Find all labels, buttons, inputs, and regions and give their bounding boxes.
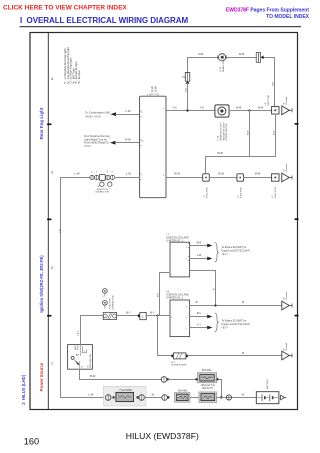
svg-text:IGNITION SW: IGNITION SW [90,353,92,368]
wire connector to right corner [264,57,275,59]
junction dot at 249.6,110.6 [248,109,250,111]
arrow to ECU 4 [207,326,212,330]
svg-text:<H-2>: <H-2> [84,145,91,148]
svg-text:R 16: R 16 [220,66,222,71]
svg-text:3 HILUX (LHD): 3 HILUX (LHD) [21,374,26,404]
svg-text:JUNCTION: JUNCTION [241,187,243,198]
I7 wire pin1 to arrow [190,245,208,247]
combination switch box C12 [140,96,166,198]
junction dot ignition feed [156,314,158,316]
svg-text:80A ALT-H: 80A ALT-H [202,387,213,390]
junction dot ground bus [214,304,216,306]
svg-text:TO MODEL INDEX: TO MODEL INDEX [266,14,310,20]
I8 wire pin3 to arrow [190,327,208,329]
wire through ign box [80,345,82,356]
svg-text:R-B: R-B [185,88,187,92]
wire junction down [249,111,251,157]
curly brace 1 [215,243,219,263]
svg-text:Power Source: Power Source [39,362,44,391]
svg-text:W: W [152,392,155,396]
sidebar divider line [47,33,49,410]
wire am2 to alt [190,397,199,399]
ign sw lever [71,356,74,359]
junction connector circles group [90,175,94,179]
junction connector J8 [272,107,279,114]
svg-text:L-B: L-B [197,253,201,257]
svg-text:Y-G: Y-G [200,105,205,109]
wire from bulb corner down [274,58,276,107]
svg-text:W-B: W-B [248,130,250,135]
fuse 7.5A DOME [116,392,134,401]
svg-text:<R-8> <S-3>: <R-8> <S-3> [85,115,102,119]
svg-text:B-R: B-R [197,241,202,245]
wire junction down to N2 [158,316,172,356]
grid tick divider y219 [47,219,51,221]
ground bus y304.9 [190,305,282,307]
svg-text:L-W: L-W [60,228,62,233]
svg-text:EWD378F Pages From Supplement: EWD378F Pages From Supplement [226,8,309,14]
svg-text:Ignition S/W(2RZ-FE, 3RZ-FE): Ignition S/W(2RZ-FE, 3RZ-FE) [39,255,44,313]
svg-text:Ground: Ground [285,96,288,104]
wire top row y57 [188,57,219,59]
grid tick right frame y219 [295,218,299,220]
ground triangle row2 [282,173,290,182]
arrow to ECU 3 [207,315,212,319]
svg-text:W-B: W-B [218,172,224,176]
wire J8 down [275,114,277,157]
wire JC to box [115,177,140,179]
wire box right ground row [166,177,203,179]
svg-text:CONNECTOR: CONNECTOR [112,295,114,309]
arrow to ECU 1 [207,244,212,248]
connector symbol with arrow [256,52,260,62]
svg-text:REAR FOG LIGHT: REAR FOG LIGHT [220,121,223,140]
svg-text:4: 4 [91,171,92,173]
svg-text:50A AM1: 50A AM1 [202,369,212,372]
wire alt to battery [217,397,257,399]
svg-text:L-W: L-W [74,172,79,176]
svg-text:1: 1 [51,362,53,366]
fuse 50A AM1 [197,373,216,383]
wire AM1 to bottom bus [219,380,222,398]
junction block dashed panel [104,386,147,406]
junction connector J6 [272,174,279,181]
grid tick right frame y315.5 [295,315,299,317]
svg-text:*6 : Europe: *6 : Europe [77,70,81,84]
svg-text:HILUX (EWD378F): HILUX (EWD378F) [126,431,199,441]
ground triangle top right [282,106,290,115]
svg-text:C 13 (B): C 13 (B) [154,86,157,95]
indicator lamp C16 comb meter [215,105,229,117]
svg-text:1: 1 [84,351,85,353]
wire ground row left: corner to JC [61,177,90,179]
svg-text:B-Y: B-Y [150,311,155,315]
connector circle dome right [139,395,145,401]
grid tick right frame y124 [295,123,299,125]
svg-text:C 16: C 16 [218,135,220,140]
junction dot bottom bus [220,396,222,398]
wire ign sw AM up [80,316,82,345]
resistor block [138,314,140,317]
arrow from DRL relay [110,141,116,145]
svg-text:INDICATOR LIGHT: INDICATOR LIGHT [222,121,225,141]
svg-text:JUNCTION: JUNCTION [268,95,270,106]
junction connector lower circles [100,182,104,186]
junction connector J5 [237,174,244,181]
svg-text:160: 160 [24,436,39,446]
svg-text:NOISE FILTER: NOISE FILTER [172,365,187,367]
svg-text:REAR FOG LIGHT: REAR FOG LIGHT [222,53,225,72]
svg-text:2: 2 [74,347,75,349]
connector circle am2 left [162,395,168,401]
svg-text:L-W: L-W [88,392,93,396]
junction dot at fuse branch [187,110,189,112]
noise filter N2 [171,355,173,358]
battery arrow [281,395,285,400]
bottom bus from long vertical [61,397,106,399]
battery cells [261,395,263,401]
ground triangle4 [282,351,290,360]
svg-text:(COMB. METER): (COMB. METER) [226,123,228,140]
connector circle battery [226,395,231,400]
ground triangle3 [282,301,290,310]
svg-text:30A AM2: 30A AM2 [178,389,188,392]
connector circle dome left [105,395,111,401]
svg-text:CONNECTOR: CONNECTOR [95,192,109,194]
svg-text:W-B: W-B [239,52,245,56]
bulb pin ticks [217,56,219,59]
svg-text:B: B [196,300,198,304]
connector circle row1 [161,377,167,383]
grid tick divider y124 [47,123,51,125]
svg-text:I OVERALL ELECTRICAL WIRING D: I OVERALL ELECTRICAL WIRING DIAGRAM [20,16,189,25]
wire N2 to ground4 [188,355,282,357]
fuse ALT main [199,392,217,403]
svg-text:Rear Fog Light: Rear Fog Light [39,107,44,139]
svg-text:BATTERY: BATTERY [266,379,269,389]
battery box [256,392,279,404]
svg-text:JUNCTION: JUNCTION [96,189,107,191]
junction connector circle pair lower [103,301,108,306]
footnote list rotated [63,47,81,84]
svg-text:3: 3 [51,171,53,175]
ign sw AM pin bracket [75,346,78,350]
ignition coil box I8 [170,300,190,337]
wire dome to am2 [144,397,161,399]
svg-text:B-R: B-R [158,293,160,297]
svg-text:R-B: R-B [199,52,204,56]
svg-text:4: 4 [96,171,97,173]
svg-text:<E-7>: <E-7> [222,326,229,329]
svg-text:AM: AM [76,353,79,356]
wire to AM1 fuse [169,379,196,381]
svg-text:W-B: W-B [258,105,264,109]
curly brace 2 [215,313,219,332]
svg-text:JUNCTION: JUNCTION [275,187,277,198]
ign sw IG pin bracket [82,346,86,352]
svg-text:B: B [242,300,244,304]
diagram frame border [30,33,298,410]
svg-text:<E-7>: <E-7> [222,253,229,256]
svg-text:1 B-Y: 1 B-Y [78,330,80,336]
svg-text:B-W: B-W [90,374,96,378]
wire bulb to connector [226,57,256,59]
svg-text:B: B [242,351,244,355]
I7 pin3 wire right and down [190,271,216,306]
svg-text:W: W [242,392,245,396]
svg-text:L-Y: L-Y [197,322,201,326]
bulb R16 rear fog light [219,54,226,61]
svg-text:R-W: R-W [125,138,131,142]
svg-text:JUNCTION: JUNCTION [110,298,112,309]
I7 pin stubs [188,243,189,245]
svg-text:R-B: R-B [273,82,275,86]
wire J5 to J6 [244,177,272,179]
svg-text:8: 8 [112,171,113,173]
arrow to ECU 2 [207,257,212,261]
svg-text:4: 4 [51,77,53,81]
I7 wire pin2 to arrow [190,258,208,260]
svg-text:B-L: B-L [197,311,202,315]
wire ign sw to N1 [81,315,104,317]
wire indicator to J8 [229,110,272,112]
svg-text:L-W: L-W [125,109,130,113]
svg-text:L-W: L-W [126,172,131,176]
grid tick divider y315.7 [47,315,51,317]
junction connector circle pair upper [103,289,108,294]
long vertical wire left x61.7 [60,178,62,398]
svg-text:Ground: Ground [285,342,288,350]
wire ign sw bottom down [80,369,162,379]
svg-text:IGNITER NO. 2: IGNITER NO. 2 [166,296,183,299]
svg-text:CLICK HERE TO VIEW CHAPTER IND: CLICK HERE TO VIEW CHAPTER INDEX [3,5,127,12]
I7 left pin wire down [160,273,171,316]
I8 wire pin2 to arrow [190,316,208,318]
svg-text:2: 2 [51,266,53,270]
svg-text:Y-G: Y-G [172,105,177,109]
svg-text:JUNCTION: JUNCTION [206,187,208,198]
wire N1 to resistor [117,315,138,317]
svg-text:W-B: W-B [255,172,261,176]
svg-text:7.5A DOME: 7.5A DOME [119,389,132,392]
svg-text:W-B: W-B [174,172,180,176]
ignition switch box I6 [68,345,93,370]
svg-text:100A ALT-S &: 100A ALT-S & [201,384,216,387]
svg-text:W-B: W-B [236,105,242,109]
svg-text:Ground: Ground [285,291,288,299]
svg-text:W-B: W-B [217,151,223,155]
svg-text:B-Y: B-Y [126,311,131,315]
noise filter capacitor N1 [103,312,116,319]
svg-text:1: 1 [103,296,104,298]
ignition coil box I7 [170,242,190,277]
svg-text:Ground: Ground [285,163,288,171]
fuse 15A rear fog [187,58,189,73]
svg-text:8: 8 [107,171,108,173]
svg-text:W-B: W-B [273,130,275,135]
arrow to combination SW [111,112,117,116]
page title rule [20,26,302,28]
wire J4 to J5 [209,177,237,179]
wire collector y155.9 [206,157,276,173]
fuse 30A AM2 [175,393,191,403]
wire resistor to junction [146,315,170,317]
junction connector J4 [203,174,210,181]
wire Y-G box to indicator [166,110,215,112]
